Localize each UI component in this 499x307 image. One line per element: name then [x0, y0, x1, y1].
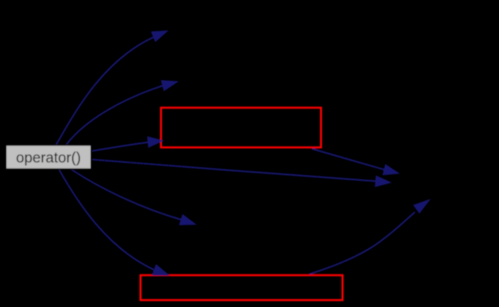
arrowhead of edge operator() to middle node (invisible)	[180, 215, 196, 225]
arrowhead of edge operator() to red node R1	[148, 137, 163, 147]
svg-text:operator(): operator()	[16, 151, 81, 167]
edge operator() to second node (invisible)	[66, 86, 163, 145]
red node R1 (truncated callee, label invisible)	[161, 108, 321, 148]
arrowhead of edge operator() to top node (invisible)	[152, 31, 168, 41]
edge operator() to red node R1	[92, 142, 148, 151]
edge operator() to middle node (invisible)	[72, 170, 182, 220]
arrowhead of edge operator() to right node (invisible)	[375, 176, 390, 186]
node operator() (current function, grey box)	[6, 145, 91, 169]
red node R2 (truncated callee, label invisible)	[141, 275, 343, 300]
edge red node R2 to right node	[310, 212, 416, 274]
edge operator() to red node R2	[59, 170, 154, 271]
arrowhead of edge operator() to red node R2	[153, 265, 169, 275]
edge operator() to right node (invisible)	[92, 160, 376, 182]
arrowhead of edge operator() to second node (invisible)	[162, 81, 178, 91]
edge red node R1 to right node	[312, 149, 384, 170]
edge operator() to top node (invisible)	[56, 37, 154, 145]
arrowhead of edge red node R2 to right node	[414, 200, 429, 213]
arrowhead of edge red node R1 to right node	[383, 165, 398, 175]
